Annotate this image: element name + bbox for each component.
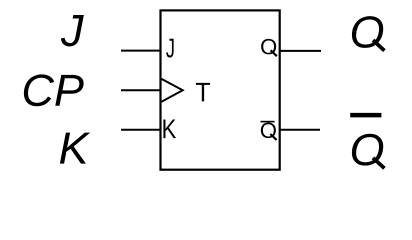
wire: Q output [280, 50, 321, 52]
net label Qbar (Q with overline) [350, 115, 384, 168]
clock edge-trigger triangle [162, 79, 183, 102]
wire: Qbar output [280, 129, 320, 131]
wire: J input [121, 50, 161, 52]
net label K [60, 133, 90, 164]
pin label T [196, 83, 210, 102]
flip-flop U1 body [161, 10, 280, 169]
pin label K [163, 120, 176, 139]
pin label J [166, 39, 174, 58]
wire: CP input [121, 89, 161, 91]
wire: K input [121, 129, 161, 131]
pin label Qbar (Q with overline) [261, 122, 277, 140]
net label Q [352, 16, 384, 51]
net label J [61, 15, 84, 46]
net label CP [24, 74, 84, 106]
pin label Q [261, 39, 277, 56]
